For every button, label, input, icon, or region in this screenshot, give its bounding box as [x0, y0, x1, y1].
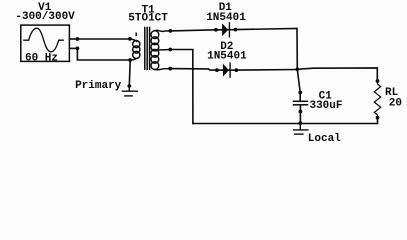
node primary ground pin	[127, 84, 131, 88]
svg-text:Primary: Primary	[75, 80, 122, 92]
node V1 plus pin	[76, 37, 80, 41]
svg-text:20: 20	[389, 97, 402, 109]
wire center tap down to bottom rail	[170, 50, 193, 124]
node junction diodes output	[295, 67, 299, 71]
source V1 box	[21, 25, 70, 61]
svg-text:Local: Local	[308, 133, 341, 145]
ground primary	[122, 86, 137, 96]
transformer T1 primary pin bottom	[128, 58, 132, 62]
svg-text:330uF: 330uF	[309, 100, 342, 112]
diode D2	[215, 68, 219, 72]
wire primary bottom to ground	[128, 60, 131, 86]
wire V1 plus stub	[70, 38, 78, 40]
wire D1 cathode to corner and down	[236, 28, 298, 69]
transformer T1 primary winding	[130, 33, 140, 60]
wire C1 bottom to rail	[299, 112, 301, 124]
node secondary bottom	[168, 67, 172, 71]
wire V1 plus to transformer	[77, 38, 129, 40]
svg-text:1N5401: 1N5401	[206, 12, 246, 24]
svg-text:60 Hz: 60 Hz	[25, 53, 58, 65]
node secondary top	[169, 29, 173, 33]
transformer T1 secondary winding	[151, 30, 170, 70]
transformer T1 primary pin top	[128, 37, 132, 41]
wire V1 minus down and right	[77, 48, 130, 60]
wire RL bottom to rail	[377, 118, 379, 124]
svg-text:-300/300V: -300/300V	[15, 11, 75, 23]
wire bottom rail	[193, 123, 378, 125]
node secondary center tap	[168, 48, 172, 52]
node local ground junction	[298, 121, 302, 125]
resistor RL	[376, 79, 380, 83]
wire junction to RL	[297, 68, 377, 81]
svg-text:1N5401: 1N5401	[207, 51, 247, 63]
transformer T1 core	[145, 28, 150, 70]
capacitor C1	[298, 91, 302, 95]
wire secondary bottom to D2	[170, 69, 217, 71]
wire secondary top to D1	[170, 30, 216, 31]
wire D2 cathode to junction	[236, 69, 297, 72]
svg-text:5TO1CT: 5TO1CT	[128, 13, 168, 25]
ground local	[294, 123, 308, 134]
diode D1	[214, 28, 218, 32]
wire V1 minus stub	[70, 47, 78, 49]
wire junction to C1	[297, 69, 300, 92]
node V1 minus pin	[76, 47, 80, 51]
sine wave	[24, 28, 63, 52]
